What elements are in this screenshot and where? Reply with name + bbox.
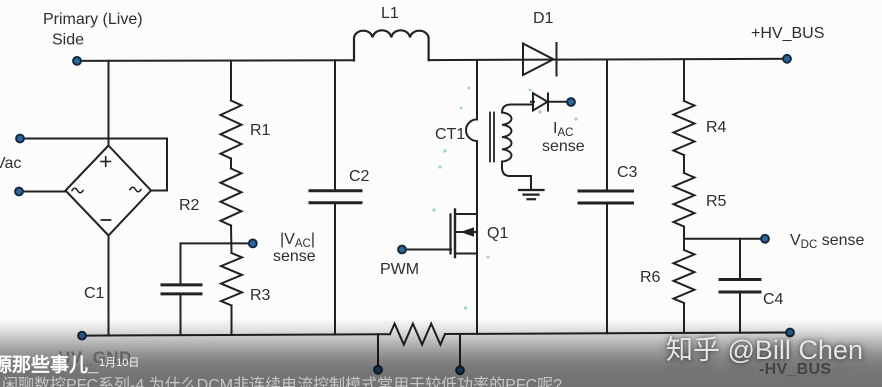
resistor shunt	[390, 324, 445, 345]
overlay caption	[2, 378, 562, 387]
capacitor C1	[162, 243, 201, 335]
svg-text:sense: sense	[542, 138, 585, 155]
svg-text:C1: C1	[84, 285, 105, 302]
wire top rail left segment	[77, 59, 354, 62]
svg-text:D1: D1	[533, 10, 554, 27]
resistor R4	[674, 101, 695, 155]
CT1 core bars	[490, 113, 494, 162]
gradient overlay	[0, 318, 882, 387]
resistor R5	[674, 173, 695, 227]
wire bridge top to rail	[108, 61, 110, 146]
node HV_GND left terminal	[78, 332, 86, 340]
CT1 secondary winding	[502, 105, 533, 190]
artifact green dots	[432, 87, 577, 310]
node shunt right tap	[456, 366, 464, 374]
wire R5 bottom to VDC junction	[683, 227, 685, 251]
capacitor C3	[579, 60, 633, 334]
svg-text:PWM: PWM	[380, 261, 419, 278]
bridge ac tilde left	[72, 188, 83, 193]
diode D1	[523, 43, 557, 76]
overlay date	[99, 358, 139, 369]
resistor R3	[221, 253, 242, 306]
svg-text:Q1: Q1	[487, 225, 508, 242]
CT1 primary loop	[466, 119, 477, 141]
node shunt left tap	[374, 366, 382, 374]
svg-text:L1: L1	[381, 5, 399, 22]
svg-text:+HV_BUS: +HV_BUS	[751, 25, 824, 42]
wire VAC sense junction	[181, 242, 249, 244]
svg-text:R1: R1	[250, 122, 271, 139]
wire R1-R2	[230, 159, 232, 169]
resistor R6	[674, 250, 695, 303]
transistor Q1 mosfet	[451, 210, 478, 258]
bridge plus mark	[101, 157, 111, 167]
diode D2 IAC sense	[531, 93, 567, 110]
node Vac upper terminal	[16, 135, 24, 143]
node Vac lower terminal	[15, 188, 23, 196]
node VDC sense	[761, 235, 769, 243]
svg-text:IAC: IAC	[553, 120, 573, 139]
label -HV_BUS	[759, 362, 831, 378]
overlay account name	[0, 356, 99, 375]
svg-text:VDC sense: VDC sense	[790, 232, 865, 251]
inductor L1	[354, 30, 429, 60]
wire bottom rail right segment	[445, 333, 790, 335]
wire R1 top	[230, 61, 232, 101]
wire Vac lower input	[19, 191, 66, 193]
svg-text:R6: R6	[640, 269, 661, 286]
capacitor C4	[720, 239, 760, 333]
svg-text:C2: C2	[349, 168, 370, 185]
wire shunt left tap	[377, 334, 379, 365]
svg-text:Vac: Vac	[0, 155, 21, 172]
wire R4-R5	[683, 155, 685, 173]
wire R4 top	[683, 59, 685, 101]
ground	[519, 190, 544, 199]
wire shunt right tap	[459, 334, 461, 366]
svg-text:C3: C3	[617, 164, 638, 181]
bridge minus mark	[102, 219, 111, 221]
svg-text:Side: Side	[52, 32, 84, 49]
svg-text:sense: sense	[273, 248, 316, 265]
svg-text:R2: R2	[179, 197, 200, 214]
wire bottom rail left segment	[82, 334, 390, 335]
wire top rail right segment	[429, 59, 787, 60]
resistor R1	[221, 101, 242, 159]
wire CT1 primary upper	[476, 60, 478, 120]
wire VDC sense horizontal	[684, 238, 761, 240]
wire Q1 drain column	[476, 141, 478, 334]
wire R6 bottom	[683, 303, 685, 333]
wire R2-R3	[230, 226, 233, 254]
node IAC sense	[567, 98, 575, 106]
node -HV_BUS terminal	[786, 329, 794, 337]
svg-text:CT1: CT1	[435, 126, 465, 143]
label HV_GND	[58, 349, 132, 366]
wire bridge bottom to ground rail	[108, 235, 110, 336]
node PWM terminal	[398, 246, 406, 254]
node +HV_BUS terminal	[783, 55, 791, 63]
watermark zhihu	[666, 337, 863, 364]
node VAC sense	[249, 240, 257, 248]
svg-text:Primary (Live): Primary (Live)	[43, 11, 143, 28]
label Primary (Live) Side	[0, 5, 865, 308]
svg-text:C4: C4	[763, 291, 784, 308]
wire Vac upper input	[20, 139, 167, 191]
svg-text:R3: R3	[250, 287, 271, 304]
bridge ac tilde right	[130, 187, 141, 192]
svg-text:R5: R5	[706, 193, 727, 210]
node Primary(Live) terminal	[73, 57, 81, 65]
wire PWM gate	[402, 249, 451, 251]
resistor R2	[221, 169, 242, 226]
wire R3 bottom	[231, 306, 233, 335]
capacitor C2	[310, 60, 361, 334]
svg-text:R4: R4	[706, 119, 727, 136]
bridge rectifier BR1 diamond	[66, 146, 152, 236]
